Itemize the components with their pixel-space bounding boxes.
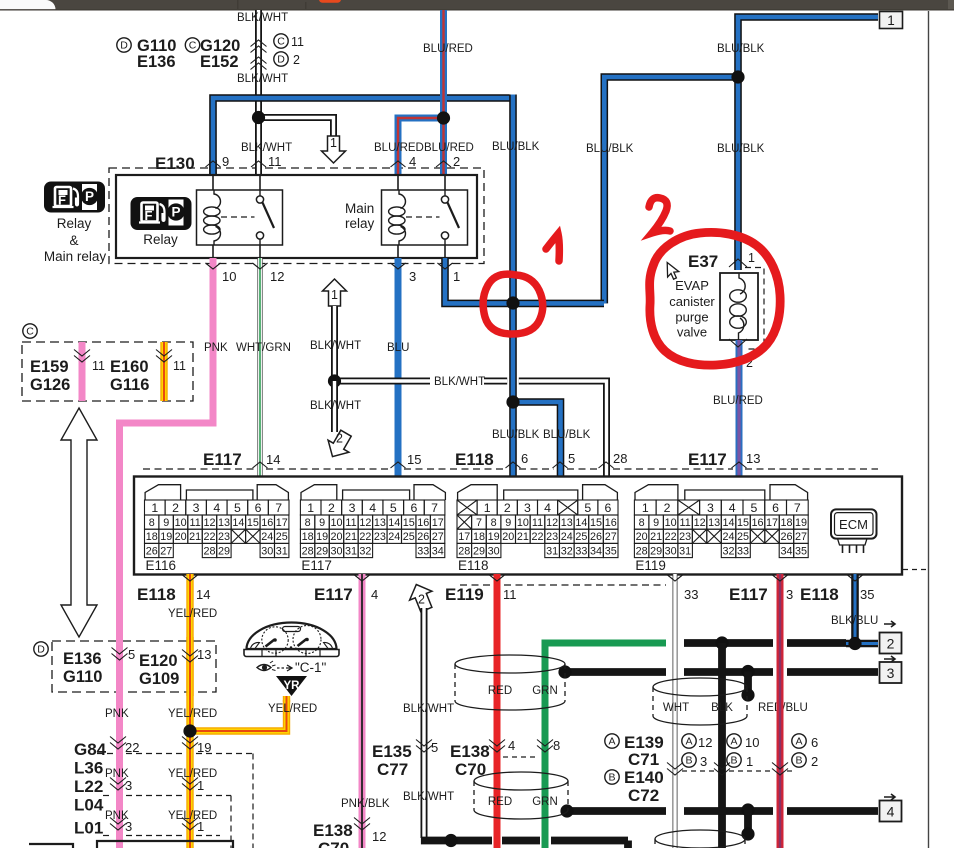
svg-text:C: C [189,40,197,52]
svg-text:14: 14 [232,517,244,529]
svg-text:BLK/WHT: BLK/WHT [237,73,288,85]
svg-text:F: F [58,193,66,208]
relay 1 symbol [197,190,283,245]
svg-text:13: 13 [561,517,573,529]
relay box E130 solid outline [116,175,477,258]
svg-text:21: 21 [345,531,357,543]
svg-text:7: 7 [431,501,438,515]
svg-text:5: 5 [750,501,757,515]
pin numbers E130 bottom [206,263,221,269]
svg-text:23: 23 [679,531,691,543]
wire YEL/RED E118-14 down [186,574,193,848]
svg-text:21: 21 [650,531,662,543]
svg-text:E37: E37 [688,252,718,271]
svg-text:E120: E120 [139,652,178,670]
svg-text:13: 13 [374,517,386,529]
svg-text:E130: E130 [155,154,195,173]
svg-text:BLK/WHT: BLK/WHT [403,791,454,803]
svg-text:19: 19 [795,517,807,529]
svg-text:22: 22 [359,531,371,543]
instrument cluster icon [244,623,339,657]
svg-text:1: 1 [330,136,337,150]
svg-text:4: 4 [887,804,895,820]
svg-text:10: 10 [222,269,236,284]
wire BLU into box 2 [846,640,878,648]
svg-text:3: 3 [786,587,793,602]
svg-text:23: 23 [546,531,558,543]
ECM connector dashed line [143,468,254,470]
svg-text:23: 23 [374,531,386,543]
wire BLK horiz 2 [684,639,773,647]
svg-text:3: 3 [409,269,416,284]
wire BLK vertical x=722 [718,643,726,848]
svg-text:24: 24 [261,531,273,543]
svg-text:BLU/BLK: BLU/BLK [717,43,765,55]
svg-text:1: 1 [151,501,158,515]
svg-text:GRN: GRN [532,796,558,808]
wire BLU pin 3 to E117-15 [395,258,402,477]
svg-text:26: 26 [780,531,792,543]
dashed link E119 11-33 [460,584,491,586]
stub into shield 4 [744,810,752,834]
svg-text:1: 1 [887,13,895,28]
svg-text:PNK: PNK [204,342,228,354]
svg-text:27: 27 [432,531,444,543]
wire RED E119-11 down [494,574,501,848]
svg-text:G110: G110 [63,668,102,686]
dashed L01 line [103,835,113,837]
svg-text:19: 19 [197,740,211,755]
svg-text:35: 35 [605,545,617,557]
svg-text:2: 2 [504,501,511,515]
svg-text:BLU/BLK: BLU/BLK [586,143,634,155]
svg-text:3: 3 [524,501,531,515]
svg-text:25: 25 [403,531,415,543]
right page border [928,11,930,848]
svg-text:E117: E117 [314,585,353,604]
wire WHT from 33 down [673,574,678,848]
junction YEL/RED [183,724,196,737]
svg-text:16: 16 [605,517,617,529]
svg-text:1: 1 [748,251,755,265]
svg-text:32: 32 [359,545,371,557]
svg-text:E118: E118 [455,450,494,469]
wire BLK/WHT from pennant2 down [421,608,428,838]
svg-text:12: 12 [359,517,371,529]
red annotation circle 1 [483,274,543,334]
svg-text:BLU/BLK: BLU/BLK [543,429,591,441]
dashed stub right of box [903,569,928,571]
svg-text:YEL/RED: YEL/RED [168,768,217,780]
svg-text:D: D [277,54,285,66]
wire WHT/GRN pin 12 down to E117-14 [257,258,262,477]
svg-text:18: 18 [302,531,314,543]
svg-text:2: 2 [172,501,179,515]
ECM module box [831,509,877,538]
svg-text:L01: L01 [74,819,103,838]
svg-text:3: 3 [125,778,132,793]
svg-text:YEL/RED: YEL/RED [168,708,217,720]
svg-text:25: 25 [737,531,749,543]
svg-text:E117: E117 [688,450,727,469]
svg-text:28: 28 [302,545,314,557]
svg-text:22: 22 [125,740,139,755]
svg-text:28: 28 [636,545,648,557]
svg-text:BLU/RED: BLU/RED [374,142,424,154]
svg-text:C70: C70 [318,839,349,848]
svg-text:12: 12 [203,517,215,529]
wire RED/BLU E117-3 down [777,574,784,848]
svg-text:13: 13 [708,517,720,529]
svg-text:BLU/BLK: BLU/BLK [492,141,540,153]
svg-text:15: 15 [247,517,259,529]
svg-text:G126: G126 [30,376,70,394]
red toolbar icon [319,0,341,3]
svg-text:D: D [120,40,128,52]
svg-text:1: 1 [746,754,753,769]
bottom boxes cut off [29,844,73,848]
svg-text:24: 24 [388,531,400,543]
svg-text:B: B [795,755,802,767]
wire YEL/RED branch to cluster [190,700,287,731]
svg-text:13: 13 [746,451,760,466]
svg-text:PNK: PNK [105,708,129,720]
svg-text:2: 2 [887,636,895,652]
svg-text:17: 17 [276,517,288,529]
wire BLU horizontal top to pin 9 [213,98,510,175]
svg-text:31: 31 [546,545,558,557]
svg-text:14: 14 [575,517,587,529]
svg-text:9: 9 [319,517,325,529]
svg-text:Relay: Relay [143,232,178,247]
pennant 2 (down, tilted) [328,430,351,456]
svg-text:EVAP: EVAP [675,278,709,293]
stub into shield [744,672,752,696]
svg-text:6: 6 [521,451,528,466]
svg-text:C: C [26,326,34,338]
svg-text:P: P [171,205,180,220]
svg-text:20: 20 [502,531,514,543]
svg-text:11: 11 [92,359,105,373]
pin numbers E130 top [206,161,221,167]
svg-text:10: 10 [665,517,677,529]
dashed L22 line [103,795,113,797]
svg-text:A: A [685,736,692,748]
fuel pump relay icon outside [44,182,105,213]
svg-text:6: 6 [772,501,779,515]
svg-text:E116: E116 [146,558,177,573]
svg-text:1: 1 [331,288,338,302]
E37 solid box [720,273,758,340]
wire BLU/BLK junction down to E118-6 [509,303,517,477]
svg-text:8: 8 [491,517,497,529]
svg-text:RED: RED [488,685,512,697]
svg-text:ECM: ECM [839,517,868,532]
svg-text:28: 28 [458,545,470,557]
red annotation digit 1 [546,234,559,261]
svg-text:15: 15 [407,452,421,467]
svg-text:C: C [277,36,285,48]
svg-text:5: 5 [584,501,591,515]
svg-text:25: 25 [575,531,587,543]
PNK stub in C box [79,342,86,401]
svg-text:33: 33 [575,545,587,557]
svg-text:YR: YR [284,680,301,692]
svg-text:15: 15 [737,517,749,529]
svg-text:4: 4 [544,501,551,515]
wire GRN down [545,643,666,848]
chevrons on BLK/WHT at refs [251,40,267,47]
ref box 1 top right [880,12,903,29]
svg-text:12: 12 [372,829,386,844]
svg-text:BLU/RED: BLU/RED [423,43,473,55]
svg-text:23: 23 [218,531,230,543]
svg-text:E136: E136 [63,650,102,668]
svg-text:BLK/WHT: BLK/WHT [403,703,454,715]
junction dots wire2 [715,636,728,649]
svg-text:30: 30 [665,545,677,557]
svg-text:11: 11 [345,517,356,529]
svg-text:E117: E117 [729,585,768,604]
svg-text:E117: E117 [301,558,332,573]
svg-text:14: 14 [722,517,734,529]
svg-text:9: 9 [653,517,659,529]
svg-text:2: 2 [328,501,335,515]
svg-text:BLK/BLU: BLK/BLU [831,615,878,627]
svg-text:A: A [608,736,615,748]
svg-text:BLK/WHT: BLK/WHT [434,376,485,388]
svg-text:12: 12 [270,269,284,284]
svg-text:10: 10 [330,517,342,529]
svg-text:7: 7 [794,501,801,515]
svg-text:BLU/BLK: BLU/BLK [717,143,765,155]
svg-text:4: 4 [729,501,736,515]
junction on BLK/WHT bottom [444,834,457,847]
svg-text:11: 11 [679,517,690,529]
svg-text:11: 11 [268,154,282,169]
svg-text:4: 4 [213,501,220,515]
connector grid E117 [300,500,321,515]
svg-text:19: 19 [488,531,500,543]
pennant 1 bottom (up) [323,279,347,306]
junction 2 [506,395,519,408]
svg-text:26: 26 [590,531,602,543]
wire BLK/WHT from top to E130 pin 11 [255,10,262,175]
svg-text:YEL/RED: YEL/RED [168,608,217,620]
svg-text:D: D [37,644,45,656]
svg-text:GRN: GRN [532,685,558,697]
svg-text:24: 24 [561,531,573,543]
svg-text:22: 22 [203,531,215,543]
svg-text:Main: Main [345,201,374,216]
ECM connector outer box [134,477,902,575]
svg-text:19: 19 [160,531,172,543]
connector grid E116 [145,500,166,515]
svg-text:BLU: BLU [387,342,409,354]
svg-text:27: 27 [795,531,807,543]
svg-text:1: 1 [197,778,204,793]
svg-text:11: 11 [532,517,543,529]
wires over D box dashes [116,637,123,696]
svg-text:A: A [795,736,802,748]
wire BLU/RED from E37 pin 2 [736,340,743,477]
svg-text:4: 4 [369,501,376,515]
svg-text:B: B [608,772,615,784]
YR wire stub [283,696,290,702]
svg-text:1: 1 [307,501,314,515]
E130 bottom pin chevrons over wires [206,263,221,269]
relay 2 pin stubs [397,175,399,190]
svg-text:31: 31 [345,545,357,557]
svg-text:31: 31 [679,545,691,557]
svg-text:34: 34 [780,545,792,557]
connector ref D dashed box [52,641,216,692]
svg-text:16: 16 [417,517,429,529]
svg-text:14: 14 [388,517,400,529]
svg-text:"C-1": "C-1" [295,660,327,675]
svg-text:11: 11 [503,587,517,602]
svg-text:29: 29 [473,545,485,557]
svg-text:E136: E136 [137,53,176,71]
svg-text:14: 14 [196,587,210,602]
svg-text:15: 15 [590,517,602,529]
svg-text:valve: valve [677,325,707,340]
relay 2 (main relay) symbol [382,190,468,245]
svg-text:E135: E135 [372,742,412,761]
svg-text:24: 24 [722,531,734,543]
svg-text:2: 2 [811,754,818,769]
svg-text:WHT/GRN: WHT/GRN [236,342,291,354]
svg-text:E138: E138 [313,821,353,840]
svg-text:G84: G84 [74,740,107,759]
svg-text:30: 30 [330,545,342,557]
svg-text:7: 7 [476,517,482,529]
svg-text:BLU/RED: BLU/RED [424,142,474,154]
svg-text:11: 11 [291,35,304,49]
svg-text:6: 6 [604,501,611,515]
svg-text:28: 28 [613,451,627,466]
fuel pump relay icon inside E130 [131,197,192,230]
svg-text:1: 1 [484,501,491,515]
svg-text:29: 29 [650,545,662,557]
svg-text:18: 18 [780,517,792,529]
svg-text:25: 25 [276,531,288,543]
svg-text:5: 5 [568,451,575,466]
svg-text:F: F [145,208,153,223]
svg-text:16: 16 [751,517,763,529]
ref box 2 [884,621,895,627]
wire BLK/WHT branch right to E118-28 [335,378,431,385]
svg-text:22: 22 [665,531,677,543]
svg-text:purge: purge [675,310,708,325]
svg-text:32: 32 [561,545,573,557]
svg-text:2: 2 [336,432,343,446]
relay box E130 dashed outline [109,168,484,264]
svg-text:26: 26 [146,545,158,557]
svg-text:E159: E159 [30,358,69,376]
svg-text:13: 13 [197,647,211,662]
svg-text:E118: E118 [458,558,489,573]
YEL/RED stub in C box [160,342,167,401]
wire BLK horiz 4 [567,807,666,815]
svg-text:6: 6 [410,501,417,515]
svg-text:E138: E138 [450,742,490,761]
wire PNK/BLK E117-4 down [359,574,366,848]
svg-text:E160: E160 [110,358,149,376]
shield oval WHT/BLK upper [653,678,747,696]
svg-text:30: 30 [488,545,500,557]
svg-text:11: 11 [173,359,186,373]
wire BLU/BLK top right to box 1 [738,17,878,270]
svg-text:E118: E118 [137,585,176,604]
svg-text:3: 3 [193,501,200,515]
svg-text:17: 17 [458,531,470,543]
wire BLK/WHT down to pennant 2 [331,381,338,432]
svg-text:G109: G109 [139,670,179,688]
dashed G84 line [97,753,113,755]
big double arrow [61,408,97,637]
shield oval RED/GRN upper [455,655,565,673]
svg-text:BLK: BLK [711,702,733,714]
svg-text:L22: L22 [74,777,103,796]
svg-text:13: 13 [218,517,230,529]
svg-text:19: 19 [316,531,328,543]
svg-text:27: 27 [605,531,617,543]
wire BLK/BLU E118-35 [851,574,859,644]
svg-text:Main relay: Main relay [44,249,107,264]
svg-text:2: 2 [293,53,300,67]
svg-text:34: 34 [432,545,444,557]
relay 1 pin stubs [212,175,214,190]
svg-text:E119: E119 [445,585,484,604]
svg-text:3: 3 [125,819,132,834]
svg-text:33: 33 [737,545,749,557]
junction BLU/RED [437,111,450,124]
svg-text:29: 29 [218,545,230,557]
ref box 3 [884,656,895,662]
svg-text:35: 35 [795,545,807,557]
svg-text:8: 8 [305,517,311,529]
svg-text:10: 10 [517,517,529,529]
svg-text:11: 11 [189,517,200,529]
svg-text:9: 9 [163,517,169,529]
svg-text:28: 28 [203,545,215,557]
pennant arrow 1 (top, down) [322,136,346,163]
svg-text:3: 3 [349,501,356,515]
svg-text:E152: E152 [200,53,239,71]
red annotation digit 2 [649,198,670,233]
svg-text:C77: C77 [377,760,408,779]
svg-text:5: 5 [431,740,438,755]
svg-text:7: 7 [275,501,282,515]
wire BLU pin 1 elbow to junction [445,258,604,303]
svg-text:8: 8 [149,517,155,529]
YR triangle connector [276,676,307,696]
bottom elbow down [502,841,628,848]
junction BLK/WHT [328,374,341,387]
svg-text:16: 16 [261,517,273,529]
svg-text:E118: E118 [800,585,839,604]
svg-text:9: 9 [222,154,229,169]
svg-text:18: 18 [473,531,485,543]
svg-text:8: 8 [639,517,645,529]
junction dots wire3 [558,665,571,678]
svg-text:33: 33 [684,587,698,602]
svg-text:5: 5 [390,501,397,515]
svg-text:4: 4 [409,154,416,169]
shield oval RED/GRN lower [474,772,568,790]
svg-text:G116: G116 [110,376,149,394]
